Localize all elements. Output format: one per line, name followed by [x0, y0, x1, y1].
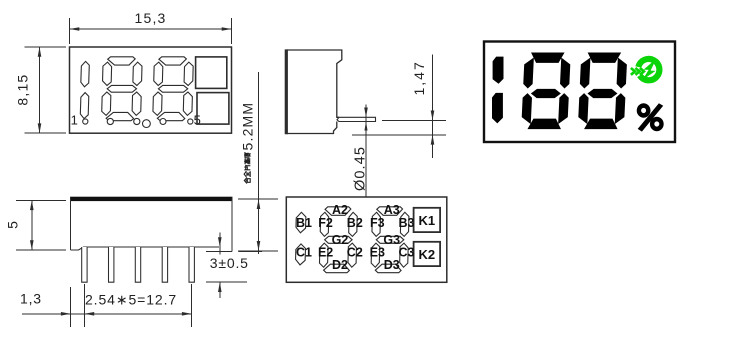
- svg-text:D2: D2: [332, 258, 348, 272]
- svg-text:D3: D3: [384, 258, 400, 272]
- svg-text:C3: C3: [399, 245, 415, 259]
- svg-text:1,3: 1,3: [20, 291, 42, 307]
- svg-text:Ø0.45: Ø0.45: [352, 146, 368, 191]
- svg-text:K2: K2: [418, 247, 435, 262]
- svg-text:5.2MM: 5.2MM: [240, 102, 256, 151]
- svg-text:E2: E2: [318, 245, 333, 259]
- svg-text:B1: B1: [296, 216, 312, 230]
- svg-text:5: 5: [194, 113, 201, 128]
- svg-text:2.54∗5=12.7: 2.54∗5=12.7: [85, 292, 177, 308]
- svg-text:1: 1: [71, 113, 78, 128]
- svg-text:A3: A3: [384, 203, 400, 217]
- svg-text:B2: B2: [347, 216, 363, 230]
- svg-text:C1: C1: [296, 245, 312, 259]
- svg-text:E3: E3: [370, 245, 385, 259]
- svg-text:C2: C2: [347, 245, 363, 259]
- svg-text:5: 5: [5, 221, 21, 229]
- svg-text:8,15: 8,15: [15, 74, 31, 106]
- svg-text:K1: K1: [418, 213, 435, 228]
- svg-text:15,3: 15,3: [134, 10, 166, 26]
- svg-text:F3: F3: [370, 216, 385, 230]
- svg-text:1,47: 1,47: [411, 60, 427, 95]
- svg-text:A2: A2: [332, 203, 348, 217]
- svg-text:F2: F2: [318, 216, 333, 230]
- svg-text:3±0.5: 3±0.5: [210, 255, 249, 271]
- svg-text:B3: B3: [399, 216, 415, 230]
